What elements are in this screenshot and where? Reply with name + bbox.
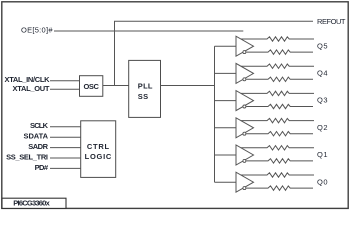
svg-text:SS: SS: [138, 92, 148, 101]
part number label PI6CG3360x: [2, 198, 66, 208]
output buffer Q0: [236, 172, 254, 192]
wire XTAL_OUT: [50, 88, 80, 90]
resistor Q5 true output: [241, 37, 314, 41]
svg-text:CTRL: CTRL: [87, 142, 110, 151]
svg-text:SADR: SADR: [28, 142, 48, 151]
wire clock bus: [214, 46, 216, 182]
svg-text:Q2: Q2: [317, 123, 328, 132]
control logic block: [81, 121, 116, 178]
wire SCLK: [50, 126, 81, 128]
wire buffer Q2 input: [215, 127, 237, 129]
wire PLL output: [161, 85, 215, 87]
resistor Q1 true output: [241, 146, 314, 150]
output buffer Q3: [236, 91, 254, 111]
svg-text:PD#: PD#: [35, 163, 49, 172]
svg-text:SS_SEL_TRI: SS_SEL_TRI: [6, 152, 48, 161]
resistor Q2 complement output: [246, 132, 313, 136]
wire OSC output: [103, 85, 129, 87]
wire PD#: [50, 167, 81, 169]
svg-text:OSC: OSC: [83, 82, 99, 91]
svg-text:PLL: PLL: [138, 82, 153, 91]
resistor Q4 complement output: [246, 77, 313, 81]
svg-text:Q4: Q4: [317, 69, 328, 78]
wire SDATA: [50, 136, 81, 138]
svg-text:Q3: Q3: [317, 96, 328, 105]
wire buffer Q3 input: [215, 100, 237, 102]
resistor Q0 complement output: [246, 186, 313, 190]
svg-text:LOGIC: LOGIC: [85, 152, 112, 161]
svg-text:Q0: Q0: [317, 177, 328, 186]
wire buffer Q5 input: [215, 45, 237, 47]
oscillator OSC: [80, 76, 103, 97]
wire XTAL_IN/CLK: [50, 80, 80, 82]
wire OE[5:0]#: [54, 30, 243, 32]
svg-text:SDATA: SDATA: [24, 132, 49, 141]
svg-text:PI6CG3360x: PI6CG3360x: [13, 199, 50, 208]
resistor Q4 true output: [241, 64, 314, 68]
resistor Q2 true output: [241, 118, 314, 122]
output buffer Q4: [236, 63, 254, 83]
output buffer Q5: [236, 36, 254, 56]
resistor Q0 true output: [241, 173, 314, 177]
svg-text:OE[5:0]#: OE[5:0]#: [21, 26, 53, 35]
resistor Q3 true output: [241, 91, 314, 95]
svg-text:Q1: Q1: [317, 150, 328, 159]
wire buffer Q0 input: [215, 181, 237, 183]
resistor Q1 complement output: [246, 159, 313, 163]
svg-text:XTAL_IN/CLK: XTAL_IN/CLK: [5, 75, 51, 84]
svg-text:Q5: Q5: [317, 41, 328, 50]
svg-text:XTAL_OUT: XTAL_OUT: [13, 84, 50, 93]
svg-text:SCLK: SCLK: [30, 121, 49, 130]
wire REFOUT: [115, 21, 314, 86]
wire buffer Q4 input: [215, 72, 237, 74]
svg-text:REFOUT: REFOUT: [317, 17, 346, 26]
output buffer Q1: [236, 145, 254, 165]
PLL SS block: [129, 60, 161, 117]
resistor Q3 complement output: [246, 104, 313, 108]
wire SS_SEL_TRI: [50, 157, 81, 159]
wire SADR: [50, 147, 81, 149]
resistor Q5 complement output: [246, 50, 313, 54]
output buffer Q2: [236, 118, 254, 138]
wire buffer Q1 input: [215, 154, 237, 156]
